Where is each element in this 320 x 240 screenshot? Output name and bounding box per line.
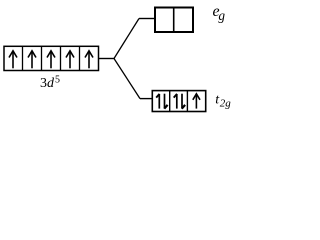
wire from 3d row to fork: [99, 58, 114, 60]
t2g box trio: [152, 91, 205, 112]
paired electrons in t2g cell 2 (up/down): [174, 94, 185, 109]
electron up-arrow in 3d cell 3: [47, 51, 55, 69]
wire to eg boxes: [139, 18, 155, 20]
wire fork upper diagonal: [114, 19, 139, 59]
single up electron in t2g cell 3: [193, 94, 200, 109]
orbital box row 3d5 (5 cells): [4, 46, 99, 70]
wire to t2g boxes: [140, 98, 153, 100]
paired electrons in t2g cell 1 (up/down): [156, 94, 167, 109]
electron up-arrow in 3d cell 2: [28, 51, 36, 69]
wire fork lower diagonal: [114, 59, 140, 99]
electron up-arrow in 3d cell 4: [66, 51, 74, 69]
eg box pair (empty): [155, 8, 193, 33]
electron up-arrow in 3d cell 1: [9, 51, 17, 69]
electron up-arrow in 3d cell 5: [85, 51, 93, 69]
